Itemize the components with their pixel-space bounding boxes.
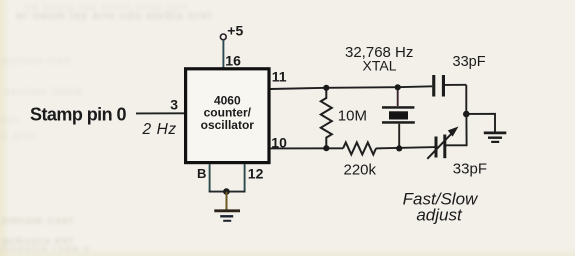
resistor R2 220k (horizontal) [343, 142, 376, 154]
crystal Y1 32,768 Hz [397, 88, 399, 107]
svg-text:3: 3 [170, 97, 178, 113]
node: crystal top junction [395, 84, 401, 90]
wire: Stamp pin 0 to pin 3 [136, 112, 184, 114]
svg-text:oscillator: oscillator [201, 118, 255, 132]
node: crystal bottom junction [396, 145, 402, 151]
ghost bleed-through text bottom left [2, 215, 74, 227]
svg-text:33pF: 33pF [453, 54, 486, 70]
wire: pin 10 bottom net left part [271, 147, 344, 149]
wire: bottom net right part to trimmer [376, 147, 436, 148]
wire: +5 to pin 16 [222, 40, 224, 68]
ghost smudge bottom corner [0, 243, 90, 255]
trimmer arrow [427, 133, 452, 159]
resistor R1 10M (vertical) [321, 88, 332, 148]
wire: pin 11 top net [271, 86, 433, 89]
svg-text:2 Hz: 2 Hz [142, 121, 177, 138]
svg-text:11: 11 [272, 69, 287, 85]
svg-text:XTAL: XTAL [363, 57, 397, 73]
node: R1 bottom junction [323, 145, 329, 151]
wire: ground stub [226, 192, 228, 210]
wire: pin 8 down [209, 164, 211, 192]
paper tint bottom edge [0, 248, 575, 256]
op IC U1: 4060 counter/oscillator box [186, 69, 269, 163]
node A: junction of C1, C2, ground [463, 111, 470, 118]
svg-text:220k: 220k [344, 161, 377, 178]
ground (under IC) [214, 209, 240, 212]
svg-text:10M: 10M [338, 108, 367, 125]
svg-text:33pF: 33pF [453, 160, 487, 177]
node: ground junction under IC [223, 188, 230, 195]
svg-text:B: B [197, 166, 206, 181]
paper tint left edge [0, 0, 10, 256]
wire: node to right ground [466, 114, 495, 132]
ghost bleed-through text top [24, 1, 189, 13]
svg-text:16: 16 [225, 52, 241, 68]
capacitor C2 33pF (trimmer) [435, 137, 438, 158]
ghost bleed-through text left upper [2, 55, 72, 67]
wire: pin8-pin12 connector [209, 191, 246, 193]
svg-text:adjust: adjust [416, 205, 463, 224]
capacitor C1 33pF (fixed, top) [432, 75, 435, 97]
+5 supply terminal circle [220, 34, 226, 40]
ghost bleed-through text left middle [4, 86, 84, 98]
svg-text:Stamp pin 0: Stamp pin 0 [30, 105, 127, 125]
svg-text:+5: +5 [227, 23, 243, 39]
node: R1 top junction [323, 85, 329, 91]
ground (right) [484, 131, 507, 134]
wire: pin 12 down [244, 164, 246, 192]
svg-text:12: 12 [248, 165, 264, 181]
wire: node down to trimmer C2 [445, 114, 467, 145]
